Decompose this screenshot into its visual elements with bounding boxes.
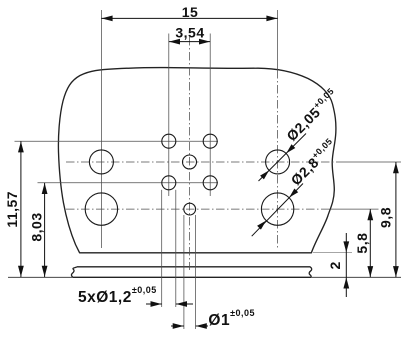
hole D1.2 bottom-left <box>162 176 176 190</box>
dimension 9,8 line <box>395 162 397 277</box>
row A horizontal line y=141.2 <box>15 140 219 142</box>
centerline vertical right column dash-dot inside part <box>277 70 279 250</box>
leader line through hole D2.05 right <box>259 134 307 182</box>
extension line for dim 2 top <box>313 252 352 254</box>
dimension 15 line <box>101 17 277 19</box>
hole D2.05 left <box>89 150 113 174</box>
row D extension line to 5,8 <box>331 208 379 210</box>
baseline left segment y=277.3 <box>8 276 72 278</box>
hole edge line x=161.7 <box>161 190 163 307</box>
hole edge line x=195.6 <box>195 215 197 329</box>
svg-text:9,8: 9,8 <box>378 207 394 228</box>
dimension 5,8 line <box>369 209 371 277</box>
centerline vertical left column x=101.4 <box>100 10 102 248</box>
hole D2.8 right <box>261 193 293 225</box>
row B dash-dot centerline y=162 <box>66 161 336 163</box>
base strip (flange) <box>71 267 311 278</box>
svg-text:3,54: 3,54 <box>175 25 204 41</box>
part body outline <box>58 68 336 253</box>
hole D1.2 bottom-right <box>203 176 217 190</box>
dimension 2 line <box>345 233 347 297</box>
svg-text:5,8: 5,8 <box>354 233 370 254</box>
hole D1.2 top-left <box>162 134 176 148</box>
hole D2.8 left <box>85 193 117 225</box>
dimension 5xD1,2 line <box>146 303 162 305</box>
dimension 8,03 line <box>44 183 46 277</box>
svg-text:8,03: 8,03 <box>29 212 45 241</box>
dimension 11,57 line <box>20 141 22 277</box>
row C horizontal line y=182.8 <box>38 182 219 184</box>
hole edge line x=175.8 <box>175 190 177 307</box>
hole D1.2 center <box>183 155 197 169</box>
leader line through hole D2.8 right <box>252 184 303 237</box>
svg-text:15: 15 <box>182 4 199 20</box>
hole D1 center bottom <box>184 203 196 215</box>
dimension 3,54 line <box>169 41 210 43</box>
svg-text:11,57: 11,57 <box>4 191 20 228</box>
svg-text:2: 2 <box>327 261 343 269</box>
dimension D1 line <box>171 325 184 327</box>
center vertical dash-dot x=189.5 <box>189 37 191 270</box>
hole edge line x=183.9 <box>183 215 185 329</box>
row B extension line to 9,8 <box>336 161 401 163</box>
baseline right segment y=277.3 <box>312 276 402 278</box>
row D dash-dot centerline y=209.1 <box>66 208 331 210</box>
column line x=210.2 <box>209 34 211 197</box>
column line x=168.8 <box>168 34 170 197</box>
hole D1.2 top-right <box>203 134 217 148</box>
centerline vertical right column x=277.6 solid above part <box>277 10 279 70</box>
hole D2.05 right <box>266 150 290 174</box>
